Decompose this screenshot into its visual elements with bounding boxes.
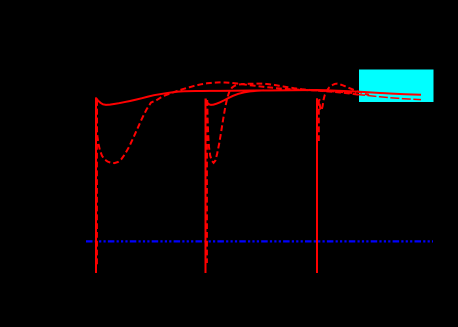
event spike 2 (solid red vertical) [205,99,207,274]
legend box (cyan) [359,70,434,103]
event spike 3 (solid red vertical) [316,98,318,273]
event spike 1 (solid red vertical) [95,97,97,273]
dashed trace 3 dip and overshoot (red dashed) [319,84,369,111]
solid trace dip after spike 2 (red) [206,90,265,105]
dashed trace spike 3 (red dashed vertical) [318,100,320,141]
dashed trace 2 dip and overshoot (red dashed) [207,84,358,163]
reference level line (blue dash-dot) [86,240,433,242]
solid trace main (red) [96,90,421,105]
dashed traces merged tail (red dashed, into legend) [356,94,421,99]
dashed trace spike 2 (red dashed vertical) [206,100,208,263]
dashed trace spike 1 (red dashed vertical) [96,100,98,265]
dashed trace 1 dip and overshoot (red dashed) [97,82,356,163]
